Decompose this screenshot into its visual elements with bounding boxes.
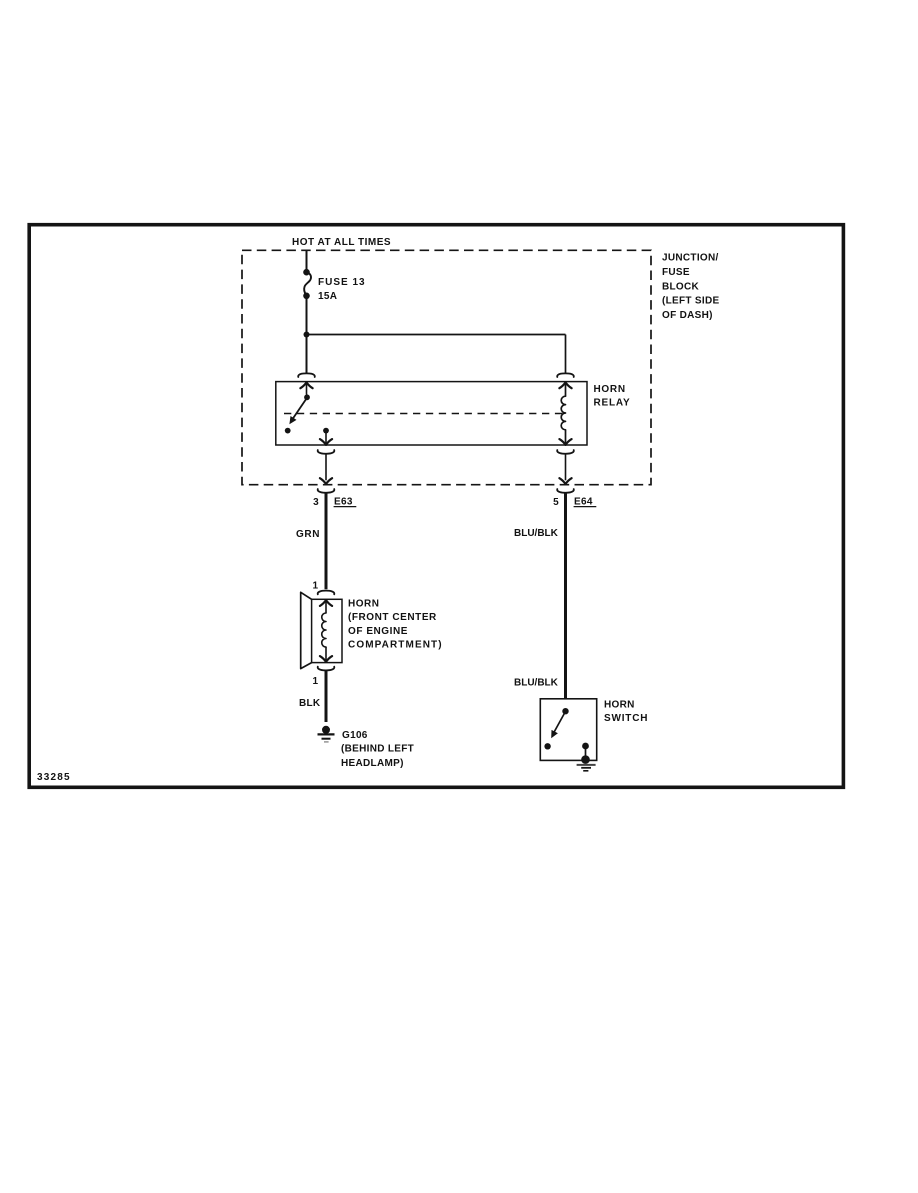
svg-text:G106: G106 xyxy=(342,730,368,741)
svg-text:15A: 15A xyxy=(318,291,337,302)
svg-text:FUSE: FUSE xyxy=(662,267,690,278)
svg-text:E64: E64 xyxy=(574,497,593,508)
svg-text:BLU/BLK: BLU/BLK xyxy=(514,678,559,689)
svg-text:COMPARTMENT): COMPARTMENT) xyxy=(348,640,443,651)
svg-text:BLK: BLK xyxy=(299,698,321,709)
svg-text:33285: 33285 xyxy=(37,772,71,783)
svg-text:BLU/BLK: BLU/BLK xyxy=(514,528,559,539)
svg-text:HORN: HORN xyxy=(604,700,635,711)
svg-text:OF ENGINE: OF ENGINE xyxy=(348,626,408,637)
svg-text:BLOCK: BLOCK xyxy=(662,282,700,293)
svg-text:(LEFT SIDE: (LEFT SIDE xyxy=(662,296,719,307)
svg-text:(FRONT CENTER: (FRONT CENTER xyxy=(348,612,437,623)
svg-text:HORN: HORN xyxy=(348,599,379,610)
svg-text:HEADLAMP): HEADLAMP) xyxy=(341,758,404,769)
svg-text:SWITCH: SWITCH xyxy=(604,713,648,724)
svg-text:E63: E63 xyxy=(334,497,353,508)
svg-text:RELAY: RELAY xyxy=(594,398,631,409)
svg-text:(BEHIND LEFT: (BEHIND LEFT xyxy=(341,744,414,755)
svg-text:HORN: HORN xyxy=(594,384,626,395)
svg-text:1: 1 xyxy=(313,581,319,592)
svg-text:HOT AT ALL TIMES: HOT AT ALL TIMES xyxy=(292,237,391,248)
svg-text:3: 3 xyxy=(313,497,319,508)
svg-text:OF DASH): OF DASH) xyxy=(662,310,713,321)
svg-text:FUSE 13: FUSE 13 xyxy=(318,277,366,288)
svg-text:JUNCTION/: JUNCTION/ xyxy=(662,253,719,264)
svg-text:GRN: GRN xyxy=(296,529,320,540)
svg-text:1: 1 xyxy=(313,676,319,687)
svg-text:5: 5 xyxy=(553,497,559,508)
